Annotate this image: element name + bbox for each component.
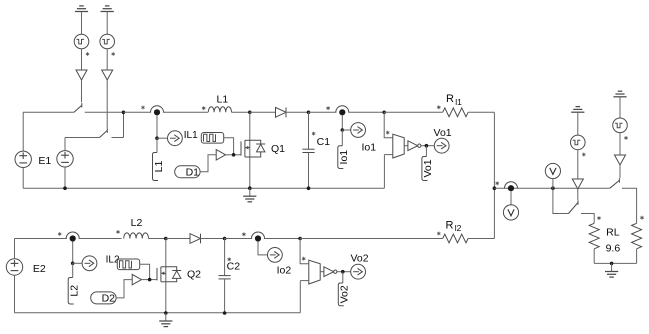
svg-text:L2: L2 [131,217,143,229]
svg-text:E1: E1 [38,155,51,167]
svg-text:Vo2: Vo2 [350,252,368,264]
svg-text:E2: E2 [33,263,46,275]
svg-text:D1: D1 [186,166,200,178]
svg-text:Vo1: Vo1 [422,159,434,177]
svg-text:l2: l2 [455,223,462,233]
svg-text:l1: l1 [455,97,462,107]
svg-text:9.6: 9.6 [606,243,621,255]
svg-text:Q1: Q1 [271,143,285,155]
svg-text:D2: D2 [102,293,116,305]
svg-text:Vo1: Vo1 [434,127,452,139]
svg-text:L2: L2 [69,285,81,297]
svg-text:C2: C2 [227,260,241,272]
svg-text:Vo2: Vo2 [339,285,351,303]
svg-text:Io2: Io2 [277,264,292,276]
svg-text:Io1: Io1 [338,150,350,165]
svg-text:R: R [446,219,454,231]
svg-text:IL1: IL1 [184,130,198,141]
svg-text:L1: L1 [217,94,229,106]
svg-text:C1: C1 [317,136,331,148]
svg-text:R: R [446,93,454,105]
svg-text:RL: RL [606,226,620,238]
svg-text:Io1: Io1 [361,141,376,153]
svg-text:Q2: Q2 [187,269,201,281]
svg-text:L1: L1 [153,161,165,173]
